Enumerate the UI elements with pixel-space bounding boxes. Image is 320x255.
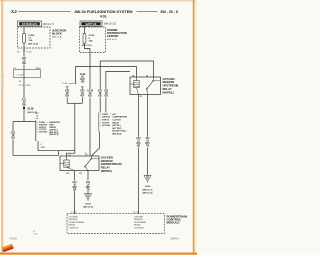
svg-text:1 2 8A: 1 2 8A	[62, 82, 68, 85]
svg-text:ST-RUN A21: ST-RUN A21	[22, 22, 38, 26]
power distribution center dashed box	[79, 27, 105, 53]
svg-text:RELAY: RELAY	[134, 224, 141, 227]
powertrain control module dashed box	[67, 214, 164, 234]
svg-text:S138: S138	[27, 108, 33, 111]
svg-text:MODULE: MODULE	[167, 220, 180, 224]
junction block label	[52, 29, 66, 39]
page number 8W-30-8	[161, 10, 178, 14]
svg-text:87: 87	[140, 96, 142, 98]
svg-text:CONTROL: CONTROL	[69, 228, 80, 230]
downstream relay label	[101, 155, 122, 173]
wire downstream ground	[87, 171, 89, 194]
svg-text:(EXCEPT DSL): (EXCEPT DSL)	[112, 131, 126, 133]
svg-text:DG: DG	[88, 95, 92, 98]
wire upstream control	[138, 95, 140, 214]
svg-text:(ST-RUN): (ST-RUN)	[39, 131, 47, 133]
svg-text:DB: DB	[22, 62, 26, 65]
svg-text:(A/T PDC): (A/T PDC)	[112, 127, 122, 130]
connector tick row	[62, 82, 78, 85]
wire step	[57, 151, 59, 156]
wire	[23, 27, 25, 34]
svg-text:RELAY: RELAY	[112, 121, 119, 124]
pcm right pin function	[134, 216, 146, 229]
svg-text:OUTPUT: OUTPUT	[102, 122, 110, 124]
wire A142 main	[89, 53, 91, 157]
svg-text:C113: C113	[41, 147, 45, 149]
wire H2 to upstream coil	[76, 67, 137, 84]
wire H3	[106, 72, 130, 113]
margin bleed marks	[2, 76, 4, 92]
wire tee	[13, 121, 36, 123]
svg-text:(8W-42-3): (8W-42-3)	[49, 133, 58, 136]
svg-text:(8W-12-7): (8W-12-7)	[43, 23, 54, 26]
svg-text:OR: OR	[137, 146, 141, 148]
svg-text:OXYGEN: OXYGEN	[134, 216, 143, 218]
footnote marks	[32, 231, 39, 236]
cavity labels below	[66, 172, 84, 175]
svg-text:G109: G109	[85, 204, 91, 206]
wire	[23, 108, 25, 122]
svg-text:C16: C16	[68, 154, 71, 156]
node BATT A0 header	[80, 21, 102, 26]
svg-text:CENTER: CENTER	[107, 34, 119, 38]
coil	[134, 80, 139, 87]
svg-text:8W-30 FUEL/IGNITION SYSTEM: 8W-30 FUEL/IGNITION SYSTEM	[74, 9, 132, 14]
node ST-RUN A21 header	[18, 21, 42, 27]
wire label Z12	[145, 137, 151, 148]
page background	[0, 0, 197, 255]
wire label A142	[87, 89, 94, 97]
connector C100 box	[14, 68, 41, 78]
wire	[83, 26, 85, 33]
fuse F8	[82, 33, 95, 47]
svg-text:OXYGEN: OXYGEN	[69, 216, 78, 218]
wire label Z12	[85, 180, 91, 191]
svg-text:WT: WT	[80, 95, 84, 98]
splice S138	[23, 107, 38, 114]
pin 3 connector C22	[17, 50, 32, 53]
svg-text:J988W-8: J988W-8	[170, 239, 180, 241]
wire A21	[23, 48, 25, 70]
svg-text:(W/PDC): (W/PDC)	[163, 90, 174, 94]
wire run to coil	[38, 150, 75, 152]
svg-text:XJ: XJ	[11, 9, 17, 14]
svg-text:(8W-15-6): (8W-15-6)	[83, 207, 93, 209]
wire label A21 18 DB	[64, 89, 70, 97]
svg-text:6: 6	[100, 125, 101, 127]
wire stub left	[66, 88, 68, 103]
wire label A21 18 DB	[21, 57, 26, 65]
svg-text:2: 2	[100, 120, 101, 122]
radiator fan relay arrow table	[36, 121, 61, 142]
svg-text:G100: G100	[145, 186, 151, 188]
svg-text:C15 ↑: C15 ↑	[66, 172, 71, 175]
wire stub right	[81, 88, 83, 103]
svg-text:BATT A0: BATT A0	[86, 22, 97, 26]
svg-text:(8W-15-7): (8W-15-7)	[143, 189, 153, 191]
relay: oxygen sensor upstream	[130, 77, 161, 95]
svg-text:COMPRESSOR: COMPRESSOR	[112, 117, 127, 119]
pin arrow left	[66, 86, 68, 88]
wire label A21 18 WT	[80, 89, 86, 97]
scan edge tints	[0, 0, 197, 1]
wire to downstream coil	[67, 103, 75, 156]
PDC label	[107, 28, 127, 41]
connector text	[41, 144, 45, 149]
svg-text:C17: C17	[85, 154, 88, 156]
svg-text:DB: DB	[11, 137, 15, 140]
switch	[147, 81, 153, 89]
pcm label	[167, 214, 188, 224]
logo brick	[2, 244, 14, 252]
wire label	[104, 89, 109, 97]
svg-text:(8W-42-6): (8W-42-6)	[112, 133, 121, 136]
svg-text:2: 2	[87, 49, 88, 51]
svg-text:2 C22: 2 C22	[26, 51, 33, 53]
svg-text:DB: DB	[98, 95, 102, 98]
svg-text:BLOCK: BLOCK	[52, 32, 62, 36]
wire	[23, 43, 25, 48]
svg-text:ENG: ENG	[36, 68, 41, 70]
svg-text:(8W-10-2): (8W-10-2)	[107, 39, 117, 41]
svg-text:DB: DB	[104, 95, 108, 98]
svg-text:TN: TN	[86, 189, 89, 191]
relay: oxygen sensor downstream	[60, 156, 99, 171]
wire label C25	[136, 137, 142, 148]
svg-text:(8W-12-8): (8W-12-8)	[52, 37, 62, 39]
svg-text:SENSOR: SENSOR	[69, 219, 78, 221]
svg-text:SENSOR: SENSOR	[134, 219, 143, 221]
svg-text:6: 6	[37, 131, 38, 133]
svg-text:20 8 C100: 20 8 C100	[19, 85, 31, 87]
cavity labels above	[68, 154, 88, 156]
svg-text:85: 85	[132, 75, 134, 77]
svg-text:CONTROL: CONTROL	[134, 228, 145, 230]
wire label C15 18 DB/OR	[72, 180, 78, 191]
svg-text:(ST-RUN): (ST-RUN)	[102, 125, 110, 127]
wire upstream ground	[147, 95, 149, 176]
svg-text:TN: TN	[146, 146, 149, 148]
wire label A21 18 DB	[10, 131, 15, 139]
wire below table	[37, 141, 39, 151]
pin arrow right	[81, 86, 83, 88]
svg-text:UPSTREAM: UPSTREAM	[134, 221, 146, 224]
wire label A21 18 DB	[97, 89, 102, 97]
svg-text:30: 30	[146, 75, 148, 77]
svg-text:(8W-12-8): (8W-12-8)	[28, 44, 38, 46]
svg-text:(W/PDC): (W/PDC)	[101, 169, 112, 173]
fuse F31	[23, 33, 39, 45]
pcm left pin function	[69, 216, 85, 229]
svg-text:8: 8	[100, 122, 101, 124]
svg-text:OR: OR	[81, 81, 85, 84]
title rule right	[137, 10, 158, 12]
svg-text:DB: DB	[65, 95, 69, 98]
svg-text:15A: 15A	[28, 39, 32, 42]
wire A21	[23, 78, 25, 109]
wire jog	[84, 43, 90, 52]
svg-text:A/C: A/C	[112, 113, 116, 116]
wire bottom horizontal	[13, 154, 58, 156]
svg-text:→ GND: → GND	[32, 234, 39, 236]
cavity labels above	[132, 75, 148, 77]
wire label A142 18 DG/OR	[80, 73, 86, 84]
switch	[85, 159, 91, 167]
svg-text:C17 ↑: C17 ↑	[79, 172, 84, 175]
wire left branch	[12, 122, 14, 156]
svg-text:SWITCH: SWITCH	[102, 120, 110, 122]
title XJ	[11, 9, 17, 14]
wire label A21 18 DB/WT	[35, 112, 39, 120]
ground G109	[83, 194, 93, 209]
wire H1 to upstream switch	[100, 61, 153, 113]
title text	[74, 9, 132, 19]
svg-text:(8W-12-9): (8W-12-9)	[82, 45, 92, 47]
svg-text:8W - 30 - 8: 8W - 30 - 8	[161, 10, 178, 14]
coil	[64, 160, 69, 167]
svg-text:4.0L: 4.0L	[100, 14, 108, 18]
svg-text:CLUTCH: CLUTCH	[112, 120, 121, 122]
svg-text:3: 3	[100, 114, 101, 116]
wire merge	[67, 102, 82, 104]
svg-text:30A: 30A	[89, 39, 93, 42]
svg-text:(8W-15-3): (8W-15-3)	[143, 193, 153, 195]
svg-text:FUSED: FUSED	[102, 114, 109, 116]
title rule left	[19, 10, 71, 12]
svg-text:2: 2	[41, 144, 42, 146]
cavity labels below	[140, 96, 142, 98]
svg-text:DOWNSTREAM: DOWNSTREAM	[69, 221, 85, 224]
a/c compressor clutch relay arrow table	[99, 113, 128, 136]
svg-text:IGNITION: IGNITION	[102, 117, 111, 119]
svg-text:(8W-10-15): (8W-10-15)	[104, 23, 116, 26]
junction block dashed box	[18, 27, 51, 48]
svg-text:5: 5	[100, 117, 101, 119]
svg-text:RELAY: RELAY	[69, 224, 76, 227]
svg-text:DB: DB	[22, 104, 26, 107]
svg-text:OR: OR	[73, 189, 77, 191]
wire below table to switch	[92, 132, 100, 156]
pin labels under C100	[19, 81, 31, 87]
svg-text:970308: 970308	[9, 238, 17, 240]
ground G100	[143, 175, 153, 194]
wire label A21 14 DB	[21, 98, 26, 106]
upstream relay label	[163, 77, 179, 95]
svg-text:(IN PDC): (IN PDC)	[112, 125, 120, 127]
wire downstream control	[74, 171, 76, 214]
